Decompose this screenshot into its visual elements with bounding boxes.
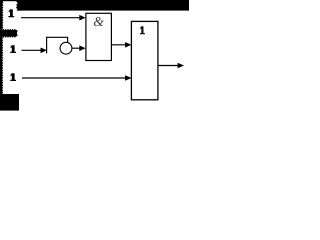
svg-text:&: & <box>93 14 104 29</box>
